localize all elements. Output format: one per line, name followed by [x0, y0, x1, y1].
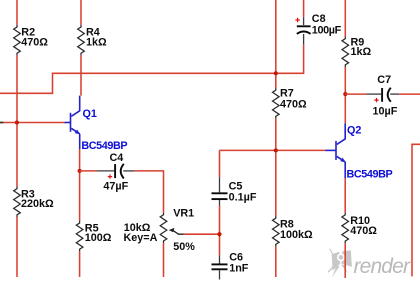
wire left column bottom: [16, 217, 18, 277]
svg-text:470Ω: 470Ω: [280, 98, 307, 110]
resistor R8: [273, 216, 280, 247]
svg-text:100Ω: 100Ω: [85, 232, 112, 244]
svg-text:BC549BP: BC549BP: [347, 169, 393, 181]
svg-text:C7: C7: [377, 74, 391, 86]
wire R7 to R8: [275, 119, 277, 217]
svg-text:render: render: [354, 255, 411, 278]
wire C5 to C6: [219, 206, 221, 256]
resistor R9: [342, 37, 349, 68]
svg-text:VR1: VR1: [173, 207, 194, 219]
potentiometer VR1: [160, 213, 167, 244]
stub left edge: [0, 122, 3, 124]
wire supply rail A: [0, 45, 304, 94]
resistor R7: [273, 88, 280, 119]
svg-text:BC549BP: BC549BP: [81, 140, 127, 152]
node junction base rail: [15, 120, 19, 124]
svg-text:220kΩ: 220kΩ: [21, 198, 54, 210]
wire C4 left red: [80, 170, 97, 172]
svg-text:0.1µF: 0.1µF: [229, 191, 257, 203]
wire Q2 emitter to R10: [344, 178, 346, 213]
node junction base Q2: [274, 148, 278, 152]
wire Q1 emitter column: [79, 149, 81, 221]
capacitor C4: [97, 164, 134, 179]
svg-text:50%: 50%: [173, 241, 195, 253]
wire R4 to Q1 collector: [80, 55, 82, 95]
wiper arrow VR1: [169, 228, 184, 235]
resistor R5: [76, 221, 83, 252]
plus sign C4: [108, 174, 112, 178]
svg-text:470Ω: 470Ω: [350, 225, 377, 237]
svg-text:Q2: Q2: [347, 125, 361, 137]
node junction R7 rail: [274, 71, 278, 75]
plus sign C7: [374, 98, 378, 102]
resistor R3: [14, 187, 21, 218]
wire C7 right: [399, 93, 420, 95]
wire R8 bottom: [275, 247, 277, 278]
svg-text:47µF: 47µF: [103, 180, 128, 192]
wire VR1 wiper: [184, 233, 220, 235]
svg-text:100µF: 100µF: [312, 24, 342, 36]
node junction wiper: [217, 232, 221, 236]
wire C4 to VR1: [134, 171, 163, 213]
svg-text:470Ω: 470Ω: [21, 37, 48, 49]
resistor R4: [78, 25, 85, 56]
svg-text:Key=A: Key=A: [124, 232, 158, 244]
wire C7 left: [345, 93, 366, 95]
wire R9 column top: [344, 0, 346, 37]
svg-text:10µF: 10µF: [373, 106, 398, 118]
svg-text:Q1: Q1: [83, 108, 97, 120]
svg-text:1nF: 1nF: [229, 263, 249, 275]
resistor R2: [14, 25, 21, 56]
wire right branch: [412, 144, 420, 276]
node junction C7: [343, 92, 347, 96]
wire C8 column top: [303, 0, 305, 17]
resistor R10: [342, 213, 349, 244]
capacitor C5: [212, 177, 228, 205]
svg-text:1kΩ: 1kΩ: [86, 37, 107, 49]
wire R7 column top: [275, 0, 277, 88]
svg-text:100kΩ: 100kΩ: [280, 229, 313, 241]
watermark logo icon: [328, 249, 352, 278]
capacitor C7: [366, 88, 399, 102]
wire R10 bottom: [344, 243, 346, 278]
wire R4 column top: [80, 0, 82, 25]
transistor Q1: [65, 96, 81, 149]
node junction emitter C4: [78, 169, 82, 173]
wire B corner to C5: [219, 150, 221, 177]
transistor Q2: [326, 123, 346, 178]
wire R5 bottom: [79, 251, 81, 277]
svg-text:C8: C8: [312, 13, 326, 25]
wire left column top: [16, 0, 18, 25]
wire B horizontal: [219, 149, 325, 151]
capacitor C6: [212, 255, 228, 279]
capacitor C8: [297, 17, 311, 44]
wire R9 to Q2 collector: [344, 67, 346, 123]
svg-text:1kΩ: 1kΩ: [351, 46, 372, 58]
plus sign C8: [295, 18, 299, 22]
wire q1 base rail: [0, 122, 65, 124]
wire VR1 bottom: [163, 243, 165, 277]
wire left column mid: [16, 55, 18, 186]
svg-text:C4: C4: [110, 152, 124, 164]
